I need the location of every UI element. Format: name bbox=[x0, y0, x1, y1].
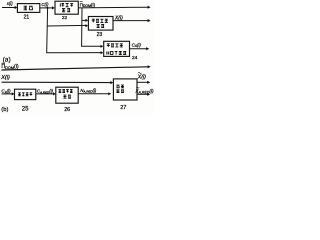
box 26 (decorrelation generation) bbox=[56, 87, 78, 103]
svg-text:27: 27 bbox=[120, 105, 126, 111]
svg-text:25: 25 bbox=[22, 106, 29, 112]
wire PI_DOM(i) from box 22 to right edge bbox=[78, 6, 150, 9]
box 26 text glyphs bbox=[59, 90, 73, 99]
label 25 bbox=[22, 106, 29, 112]
wire C_A(i) into box 25 bbox=[2, 92, 15, 95]
box 22 text glyphs bbox=[60, 3, 73, 11]
svg-text:ΠDOM(i): ΠDOM(i) bbox=[80, 2, 96, 8]
svg-text:(b): (b) bbox=[1, 107, 8, 113]
box 23 text glyphs bbox=[92, 19, 108, 27]
svg-text:X(i): X(i) bbox=[0, 75, 10, 81]
overbar on PI (b) bbox=[2, 62, 6, 64]
node X(i) label (a) bbox=[114, 15, 123, 21]
box 24 text glyphs bbox=[107, 44, 126, 55]
node C_A,RED(i) label bbox=[37, 89, 54, 95]
wire vertical V2 from PI junction down bbox=[82, 8, 104, 48]
label 23 bbox=[97, 32, 103, 38]
wire X(i) into box 27 bbox=[2, 81, 114, 84]
label 27 bbox=[120, 105, 126, 111]
wire box25 to box26 bbox=[36, 92, 56, 95]
label 24 bbox=[132, 55, 138, 61]
svg-text:22: 22 bbox=[62, 15, 68, 20]
svg-text:23: 23 bbox=[97, 32, 103, 38]
node N_A,RED(i) label bbox=[80, 88, 97, 94]
label 22 bbox=[62, 15, 68, 20]
node C(i) label bbox=[41, 2, 49, 7]
wire vertical V1 from C junction down bbox=[47, 8, 104, 54]
svg-text:(a): (a) bbox=[3, 56, 11, 63]
wire branch V1 to box 23 lower input bbox=[47, 24, 88, 27]
node C_A(i) label (b) bbox=[1, 89, 11, 95]
node X(i) label (b) bbox=[0, 75, 10, 81]
wire branch V2 to box 23 upper input bbox=[82, 19, 88, 22]
tilde over X bbox=[138, 72, 141, 73]
box 25 (quantize/encode) bbox=[15, 89, 36, 99]
wire PI_DOM(i) passthrough (b) bbox=[2, 65, 151, 70]
node s(i) input label bbox=[7, 1, 13, 6]
label 21 bbox=[24, 15, 30, 21]
junction dot on C(i) wire bbox=[47, 7, 49, 9]
wire X~(i) output bbox=[137, 81, 150, 84]
box 24 (compute ambient HOA component) bbox=[104, 41, 130, 56]
wire box26 to box27 bbox=[78, 92, 111, 95]
box 27 text glyphs bbox=[116, 85, 124, 93]
wire X~_A,RED(i) output bbox=[137, 93, 150, 96]
box 25 text glyphs bbox=[18, 93, 32, 96]
svg-text:NA,RED(i): NA,RED(i) bbox=[80, 88, 97, 94]
label (b) bbox=[1, 107, 8, 113]
box 22 (estimate dominant direction) bbox=[55, 1, 78, 14]
node X~_A,RED(i) label bbox=[134, 88, 154, 94]
box 23 (compute directional component) bbox=[88, 17, 113, 31]
wire C_A(i) from box 24 to right edge bbox=[130, 47, 150, 50]
svg-text:CA(i): CA(i) bbox=[132, 42, 142, 48]
node PI_DOM(i) label (b) bbox=[1, 64, 18, 70]
svg-text:C(i): C(i) bbox=[41, 2, 49, 7]
wire X(i) from box 23 to right edge bbox=[113, 19, 151, 22]
wire s(i) into box 21 bbox=[2, 6, 17, 9]
node C_A(i) label (a) bbox=[132, 42, 142, 48]
node X~(i) label bbox=[137, 74, 147, 80]
svg-text:s(i): s(i) bbox=[7, 1, 13, 6]
svg-text:X(i): X(i) bbox=[114, 15, 123, 21]
overbar on PI (a) bbox=[80, 1, 83, 3]
box 21 text glyphs bbox=[24, 6, 33, 10]
svg-text:21: 21 bbox=[24, 15, 30, 21]
svg-text:26: 26 bbox=[64, 107, 70, 113]
box 21 (transform) bbox=[17, 4, 39, 13]
svg-text:X(i): X(i) bbox=[137, 74, 147, 80]
box 27 (synthesis/reconstruction) bbox=[113, 79, 137, 100]
node PI_DOM(i) label (a) bbox=[80, 2, 96, 8]
svg-text:24: 24 bbox=[132, 55, 138, 61]
label 26 bbox=[64, 107, 70, 113]
label (a) bbox=[3, 56, 11, 63]
tilde over X_A,RED bbox=[136, 87, 139, 88]
wire C(i) box21 to box22 bbox=[40, 6, 55, 9]
